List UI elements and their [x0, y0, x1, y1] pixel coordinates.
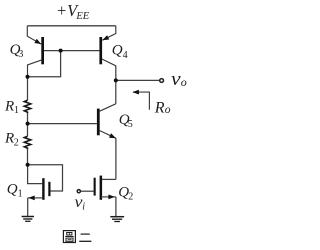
svg-text:1: 1	[14, 105, 19, 116]
caption 二 glyph	[79, 234, 91, 241]
svg-text:R: R	[4, 99, 14, 115]
wire +VEE top rail	[27, 25, 116, 27]
resistor R2	[24, 136, 30, 149]
resistor R1	[24, 100, 30, 113]
svg-text:2: 2	[128, 192, 133, 203]
wire Q4 collector vertical	[115, 66, 117, 81]
ground under Q2	[110, 217, 124, 222]
node B: R2/Q1 drain/gate	[26, 163, 30, 167]
svg-text:R: R	[154, 99, 165, 116]
svg-text:Q: Q	[112, 43, 123, 59]
wire Q3 collector node to R1	[27, 77, 29, 101]
wire base Q3 to base Q4	[44, 50, 99, 52]
svg-text:o: o	[165, 104, 171, 116]
svg-text:5: 5	[128, 119, 133, 130]
wire Q1 drain	[28, 165, 43, 184]
svg-text:Q: Q	[7, 182, 18, 198]
wire diode tie base to collector of Q3	[28, 51, 61, 77]
svg-text:4: 4	[123, 50, 128, 61]
wire Q5 emitter to Q2 drain	[115, 138, 117, 179]
svg-text:2: 2	[14, 137, 19, 148]
transistor Q4 (PNP)	[99, 26, 115, 66]
svg-text:i: i	[82, 201, 85, 212]
svg-text:o: o	[181, 75, 187, 89]
svg-text:EE: EE	[75, 11, 89, 22]
wire R2 to node B	[27, 149, 29, 165]
svg-text:R: R	[4, 130, 14, 146]
wire output node down to Q5 collector	[115, 80, 117, 103]
caption 圖 (figure) glyph	[63, 231, 75, 243]
wire Q2 source to ground	[115, 197, 117, 216]
wire vi terminal to Q2 gate	[81, 190, 94, 192]
transistor Q3 (PNP)	[27, 26, 44, 77]
node A: R1/R2/Q5 base	[26, 122, 30, 126]
wire Q1 source to ground	[27, 198, 29, 216]
transistor Q5 (NPN)	[97, 104, 116, 139]
node base junction Q3/Q4	[59, 49, 63, 53]
node output junction	[114, 78, 118, 82]
svg-text:3: 3	[18, 49, 23, 60]
wire node A to R2	[27, 124, 29, 137]
ground under Q1	[22, 217, 34, 222]
node Q3 collector / R1	[26, 75, 30, 79]
wire output node to vo terminal	[116, 79, 160, 81]
Ro arrow	[132, 90, 149, 110]
wire R1 to node A	[27, 113, 29, 123]
wire Q1 gate loop	[28, 165, 63, 191]
transistor Q2 (NMOS)	[94, 176, 116, 200]
terminal vo	[160, 79, 164, 83]
wire Q2 drain arm	[101, 178, 116, 180]
wire Q5 base	[28, 123, 97, 125]
svg-text:1: 1	[18, 189, 23, 200]
terminal vi	[77, 190, 80, 193]
transistor Q1 (NMOS, diode connected, mirrored)	[28, 178, 51, 200]
